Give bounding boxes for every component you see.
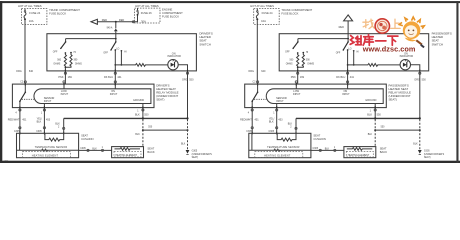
svg-text:www.dzsc.com: www.dzsc.com xyxy=(362,45,416,54)
svg-text:SWITCH: SWITCH xyxy=(432,42,443,46)
fuse F26 symbol xyxy=(137,8,139,10)
page frame right border xyxy=(456,1,458,163)
svg-text:FUSE 26: FUSE 26 xyxy=(141,11,152,15)
watermark mascot xyxy=(399,17,425,48)
svg-text:SEAT): SEAT) xyxy=(389,98,397,102)
svg-text:SEAT): SEAT) xyxy=(156,98,164,102)
watermark glyph xia xyxy=(388,36,398,45)
page frame bottom border xyxy=(0,161,460,163)
svg-text:RED: RED xyxy=(102,19,107,22)
svg-text:HOT AT ALL TIMES: HOT AT ALL TIMES xyxy=(135,4,159,8)
svg-text:RED: RED xyxy=(339,26,344,29)
svg-text:30A: 30A xyxy=(141,20,146,24)
watermark glyph wei xyxy=(350,36,361,45)
splice connector S406 xyxy=(114,29,118,32)
watermark faded slogan glyph shang xyxy=(391,19,401,28)
svg-text:940 A: 940 A xyxy=(107,27,113,30)
page frame top border xyxy=(0,1,460,3)
feed wire to switch and off-page arrow xyxy=(97,21,134,23)
svg-text:COMPARTMENT: COMPARTMENT xyxy=(162,11,183,15)
svg-text:RED: RED xyxy=(119,19,124,22)
watermark glyph ku xyxy=(363,35,373,46)
junction to switch feed xyxy=(115,21,117,23)
watermark round emblem xyxy=(375,19,389,33)
watermark glyph yi xyxy=(376,40,386,42)
engine compartment fuse block (dashed box) xyxy=(135,8,160,23)
page frame left border xyxy=(0,1,2,163)
wire fuse to feed xyxy=(135,15,138,21)
svg-text:FUSE BLOCK: FUSE BLOCK xyxy=(162,14,179,18)
svg-text:SWITCH: SWITCH xyxy=(199,42,210,46)
svg-text:ENGINE: ENGINE xyxy=(162,8,173,12)
up arrow feed (passenger circuit) xyxy=(344,15,353,21)
watermark faded slogan glyph zhao xyxy=(363,19,374,28)
off-page arrow xyxy=(91,19,97,24)
